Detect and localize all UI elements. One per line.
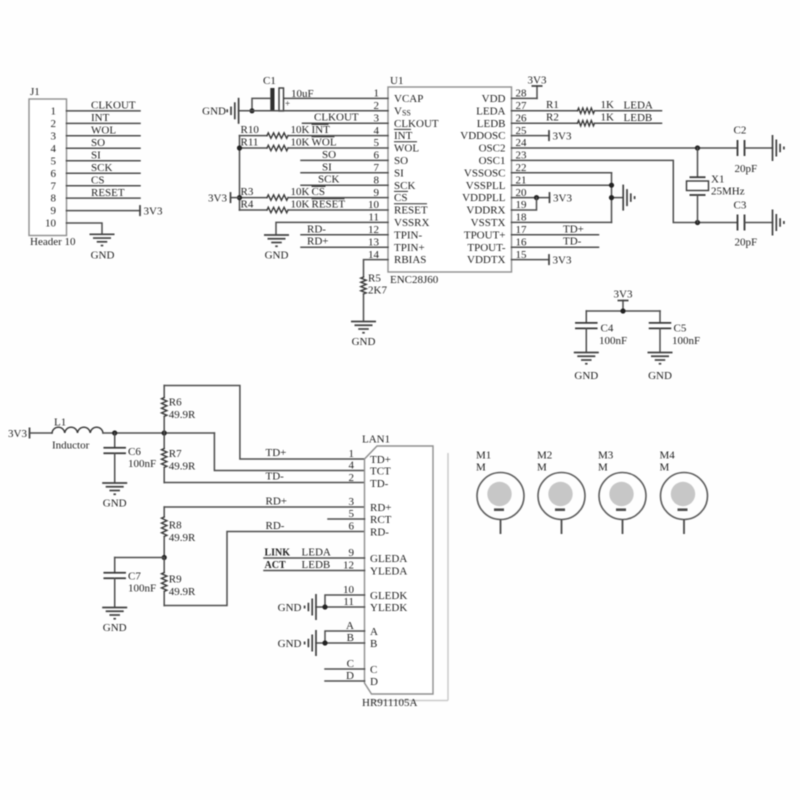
svg-text:RCT: RCT (370, 514, 392, 526)
crystal X1 top plate (690, 176, 706, 178)
resistor R1 1K (LEDA) (512, 110, 578, 112)
wire C4 to ground (585, 328, 587, 352)
analog ground vertical wire (611, 173, 613, 223)
svg-text:GND: GND (574, 370, 598, 382)
svg-text:B: B (347, 632, 354, 644)
svg-text:R8: R8 (169, 520, 182, 532)
decoupling rail wire (586, 310, 660, 312)
wire RD+ to LAN1 pin 3 (164, 506, 364, 508)
wire RCT stub LAN1 pin 5 (328, 518, 365, 520)
wire J1 pin 7 net CS (67, 185, 141, 187)
svg-text:INT: INT (91, 112, 110, 124)
svg-text:GND: GND (265, 250, 289, 262)
resistor R8 49.9R (163, 507, 165, 517)
svg-text:VCAP: VCAP (394, 93, 423, 105)
INT net label overbar (312, 123, 329, 125)
svg-text:SO: SO (322, 149, 336, 161)
svg-text:R9: R9 (169, 574, 182, 586)
mounting hole M2 bottom tick (555, 508, 565, 511)
svg-text:3V3: 3V3 (614, 289, 633, 301)
svg-text:GND: GND (648, 370, 672, 382)
mounting hole M4 pad (671, 482, 695, 506)
svg-text:3: 3 (349, 496, 355, 508)
svg-text:TPIN+: TPIN+ (394, 242, 425, 254)
svg-text:3V3: 3V3 (553, 192, 572, 204)
svg-text:C3: C3 (734, 200, 747, 212)
svg-text:VSSOSC: VSSOSC (464, 167, 506, 179)
junction VSSPLL/ground wire (609, 183, 614, 188)
wire U1 pin 18 VSSTX to ground net (512, 221, 612, 223)
resistor R10 10K (INT pull-up) (240, 135, 268, 137)
svg-text:LEDA: LEDA (302, 547, 331, 559)
svg-text:C6: C6 (128, 446, 141, 458)
svg-text:GND: GND (103, 498, 127, 510)
svg-text:R5: R5 (368, 273, 381, 285)
svg-text:10K: 10K (291, 124, 310, 136)
svg-text:VDDRX: VDDRX (466, 205, 505, 217)
capacitor C1 positive plate (279, 88, 284, 111)
wire YLEDA LAN1 pin 12 (264, 570, 365, 572)
svg-text:100nF: 100nF (599, 335, 627, 347)
wire C2 to ground (745, 147, 773, 149)
mounting hole M4 pin stub (683, 520, 685, 535)
power 3V3 at pin 15 (548, 254, 550, 265)
wire J1 pin 5 net SI (67, 160, 141, 162)
svg-text:C2: C2 (734, 125, 747, 137)
wire C1 to ground net (252, 98, 270, 110)
mounting hole M3 outer circle (599, 473, 646, 520)
svg-text:3V3: 3V3 (553, 130, 572, 142)
resistor R5 2K7 on RBIAS (364, 260, 389, 277)
wire TCT branch to LAN1 pin 4 (214, 433, 364, 471)
svg-text:M: M (537, 462, 547, 474)
svg-text:R2: R2 (546, 111, 559, 123)
wire ground stub to sideways ground (612, 197, 624, 199)
svg-text:D: D (346, 670, 354, 682)
wire C3 to ground (745, 222, 773, 224)
svg-text:RD+: RD+ (370, 502, 391, 514)
junction rail/R6R7 (162, 430, 167, 435)
svg-text:M2: M2 (537, 450, 552, 462)
svg-text:10K: 10K (291, 137, 310, 149)
power 3V3 for decoupling caps (622, 301, 624, 312)
wire U1 pin 6 SO (301, 159, 388, 161)
wire LAN1 pin C stub (325, 668, 365, 670)
capacitor C5 100nF (649, 322, 672, 324)
capacitor C2 20pF (737, 140, 739, 156)
WOL net label overbar (312, 136, 335, 138)
wire R7 bottom to LAN1 pin 2 TD- (164, 482, 364, 484)
crystal X1 bottom plate (690, 194, 706, 196)
svg-text:SCK: SCK (91, 162, 112, 174)
svg-text:M4: M4 (660, 450, 676, 462)
power 3V3 at U1 pin 28 (536, 86, 538, 98)
CS net label overbar (312, 185, 326, 187)
svg-text:1K: 1K (601, 111, 615, 123)
pull-up bus vertical wire (239, 136, 241, 210)
wire GLEDK LAN1 pin 10 to ground (325, 595, 365, 607)
svg-text:6: 6 (51, 168, 57, 180)
mounting hole M3 bottom tick (616, 508, 626, 511)
junction OSC2/crystal top (695, 145, 700, 150)
wire U1 pin 25 VDDOSC to 3V3 (512, 135, 550, 137)
svg-text:C1: C1 (263, 75, 276, 87)
svg-text:SCK: SCK (318, 174, 339, 186)
resistor R6 49.9R (163, 386, 165, 398)
junction rail/C6 (112, 430, 117, 435)
svg-text:VDDPLL: VDDPLL (462, 192, 506, 204)
svg-text:GND: GND (278, 602, 302, 614)
svg-text:YLEDK: YLEDK (370, 602, 407, 614)
power 3V3 at pin 20 (549, 192, 551, 203)
svg-text:SI: SI (91, 150, 101, 162)
wire U1 pin 22 VSSOSC to ground net (512, 172, 612, 174)
wire R6 top to LAN1 pin 1 TD+ (164, 386, 364, 460)
svg-text:SI: SI (322, 161, 332, 173)
svg-text:R6: R6 (169, 397, 182, 409)
svg-text:M: M (476, 462, 486, 474)
svg-text:ENC28J60: ENC28J60 (390, 274, 439, 286)
U1 pin 5 WOL overbar (394, 141, 417, 143)
wire R9 bottom to LAN1 pin 6 RD- (164, 532, 364, 606)
svg-text:2: 2 (51, 118, 57, 130)
svg-text:VSSPLL: VSSPLL (466, 180, 506, 192)
wire U1 pin 7 SI (301, 172, 388, 174)
svg-text:3V3: 3V3 (553, 254, 572, 266)
svg-text:10: 10 (343, 584, 355, 596)
mounting hole M3 pin stub (622, 520, 624, 535)
mounting hole M2 pin stub (561, 520, 563, 535)
svg-text:RD+: RD+ (307, 236, 328, 248)
svg-text:3: 3 (51, 130, 57, 142)
wire LAN1 pin B to ground (316, 642, 365, 644)
junction on ground wire at C1 (249, 108, 254, 113)
svg-text:TCT: TCT (370, 465, 391, 477)
svg-text:M3: M3 (598, 450, 614, 462)
svg-text:TPIN-: TPIN- (394, 229, 422, 241)
wire 3V3 to L1 (30, 432, 52, 434)
svg-text:5: 5 (349, 508, 355, 520)
svg-text:1: 1 (349, 448, 355, 460)
capacitor C4 100nF (575, 322, 598, 324)
svg-text:3V3: 3V3 (528, 75, 547, 87)
wire J1 pin 6 net SCK (67, 172, 141, 174)
mounting hole M1 bottom tick (494, 508, 504, 511)
svg-text:C: C (370, 664, 377, 676)
wire U1 pin 8 SCK (301, 184, 388, 186)
svg-text:TD-: TD- (266, 471, 285, 483)
svg-text:SCK: SCK (394, 180, 415, 192)
U1 pin 9 CS overbar (394, 190, 408, 192)
svg-text:49.9R: 49.9R (169, 461, 196, 473)
svg-text:LEDB: LEDB (477, 118, 506, 130)
svg-text:RESET: RESET (312, 199, 346, 211)
svg-text:49.9R: 49.9R (169, 409, 196, 421)
ground symbol below pin 11 (264, 234, 289, 236)
power 3V3 at J1 pin 9 (139, 205, 141, 216)
capacitor C7 100nF (114, 558, 116, 573)
wire U1 pin 24 OSC2 to crystal (512, 147, 738, 149)
svg-text:CS: CS (394, 192, 407, 204)
svg-text:C: C (347, 658, 354, 670)
svg-text:RD-: RD- (266, 520, 285, 532)
svg-text:3V3: 3V3 (208, 192, 227, 204)
ground symbol right of C2 (sideways) (772, 135, 774, 161)
svg-text:WOL: WOL (312, 137, 337, 149)
svg-text:1: 1 (51, 106, 57, 118)
svg-text:HR911105A: HR911105A (362, 697, 417, 709)
svg-text:VDDTX: VDDTX (467, 254, 506, 266)
mounting hole M1 outer circle (477, 473, 524, 520)
svg-text:GND: GND (352, 336, 376, 348)
svg-text:100nF: 100nF (672, 335, 700, 347)
svg-text:10K: 10K (291, 186, 310, 198)
svg-text:100nF: 100nF (128, 583, 156, 595)
svg-text:LINK: LINK (265, 548, 291, 559)
svg-text:2K7: 2K7 (368, 285, 387, 297)
svg-text:YLEDA: YLEDA (370, 565, 407, 577)
svg-text:CLKOUT: CLKOUT (314, 112, 359, 124)
mounting hole M2 pad (548, 482, 572, 506)
svg-text:4: 4 (349, 460, 355, 472)
junction LED cathode ground (322, 604, 327, 609)
crystal X1 bottom lead (697, 195, 699, 223)
svg-text:OSC1: OSC1 (479, 155, 506, 167)
svg-text:4: 4 (51, 143, 57, 155)
ground symbol below J1 (90, 233, 115, 235)
wire YLEDK LAN1 pin 11 to ground (316, 606, 365, 608)
ground symbol below C7 (102, 607, 127, 609)
ground symbol at LED cathodes (sideways) (315, 594, 317, 620)
svg-text:49.9R: 49.9R (169, 586, 196, 598)
svg-text:LEDB: LEDB (302, 559, 331, 571)
svg-text:B: B (370, 638, 377, 650)
wire junction to C7 (115, 557, 165, 559)
junction 3V3 rail (620, 308, 625, 313)
wire J1 pin 9 to 3V3 (67, 210, 141, 212)
svg-text:RD-: RD- (307, 223, 326, 235)
svg-text:TPOUT+: TPOUT+ (464, 229, 506, 241)
svg-text:R3: R3 (241, 186, 254, 198)
svg-text:LEDA: LEDA (624, 100, 653, 112)
svg-text:M: M (660, 462, 670, 474)
svg-text:VDDOSC: VDDOSC (460, 130, 505, 142)
svg-text:ACT: ACT (265, 560, 286, 571)
connector LAN1 box (365, 446, 434, 694)
junction ground stub (609, 195, 614, 200)
svg-text:RESET: RESET (91, 187, 125, 199)
svg-text:R4: R4 (241, 199, 254, 211)
wire J1 pin 2 net INT (67, 122, 141, 124)
svg-text:GND: GND (103, 622, 127, 634)
svg-text:A: A (346, 620, 354, 632)
wire LAN1 pin A to ground (325, 631, 365, 643)
svg-text:9: 9 (51, 205, 57, 217)
svg-text:SO: SO (394, 155, 408, 167)
svg-text:10uF: 10uF (291, 88, 314, 100)
svg-text:INT: INT (394, 130, 413, 142)
svg-text:R1: R1 (546, 99, 559, 111)
svg-text:CLKOUT: CLKOUT (394, 118, 439, 130)
resistor R3 10K (CS pull-up) (240, 197, 268, 199)
resistor R4 10K (RESET pull-up) (240, 209, 268, 211)
IC U1 box (388, 87, 512, 272)
wire U1 pin 28 VDD to 3V3 (512, 97, 538, 99)
svg-text:TD+: TD+ (370, 454, 391, 466)
svg-text:TD+: TD+ (266, 447, 287, 459)
svg-text:VDD: VDD (482, 93, 506, 105)
svg-text:R11: R11 (241, 137, 259, 149)
wire J1 pin 8 net RESET (67, 197, 141, 199)
mounting hole M4 bottom tick (678, 508, 688, 511)
ground symbol below R5 (351, 321, 376, 323)
wire U1 pin 21 VSSPLL (512, 184, 612, 186)
svg-text:2: 2 (349, 472, 355, 484)
svg-text:9: 9 (349, 547, 355, 559)
svg-text:20pF: 20pF (735, 237, 758, 249)
ground symbol below C5 (648, 352, 673, 354)
wire U1 pin 2 Vss to GND (239, 110, 388, 112)
resistor R9 49.9R (163, 558, 165, 573)
wire GLEDA LAN1 pin 9 (264, 557, 365, 559)
svg-text:OSC2: OSC2 (479, 143, 506, 155)
svg-text:D: D (370, 676, 378, 688)
svg-text:Header 10: Header 10 (30, 236, 76, 248)
wire J1 pin 10 to ground (67, 223, 103, 234)
mounting hole M1 pin stub (500, 520, 502, 535)
svg-text:TD-: TD- (563, 236, 582, 248)
mounting hole M4 outer circle (661, 473, 708, 520)
svg-text:INT: INT (312, 124, 331, 136)
svg-text:M1: M1 (476, 450, 491, 462)
svg-text:TD-: TD- (370, 478, 389, 490)
capacitor C1 negative plate (270, 88, 274, 111)
svg-text:TPOUT-: TPOUT- (467, 242, 505, 254)
svg-text:25MHz: 25MHz (711, 186, 745, 198)
wire U1 pin 12 TPIN- net RD- (301, 234, 388, 236)
svg-text:X1: X1 (711, 174, 724, 186)
ground symbol right of U1 (sideways) (622, 185, 624, 211)
svg-text:+: + (285, 99, 290, 109)
inductor L1 (52, 427, 103, 433)
ground symbol at shield (sideways) (315, 630, 317, 656)
wire U1 pin 15 VDDTX to 3V3 (512, 259, 550, 261)
wire U1 pin 20 VDDPLL to 3V3 (512, 197, 550, 199)
wire L1 to filter rail (103, 432, 214, 434)
mounting hole M2 outer circle (538, 473, 585, 520)
svg-text:RBIAS: RBIAS (394, 254, 426, 266)
ground symbol below C6 (102, 482, 127, 484)
svg-text:L1: L1 (54, 417, 66, 429)
svg-text:C7: C7 (128, 571, 141, 583)
svg-text:3V3: 3V3 (8, 428, 27, 440)
mounting hole M3 pad (609, 482, 633, 506)
crystal X1 body (687, 181, 709, 191)
svg-text:1K: 1K (601, 99, 615, 111)
resistor R11 10K (WOL pull-up) (240, 147, 268, 149)
svg-text:LEDB: LEDB (624, 112, 653, 124)
connector J1 box (29, 99, 67, 236)
svg-text:VSSRX: VSSRX (394, 217, 430, 229)
crystal X1 top lead (697, 148, 699, 177)
wire J1 pin 4 net SO (67, 147, 141, 149)
svg-text:M: M (598, 462, 608, 474)
mounting hole M1 pad (487, 482, 511, 506)
svg-text:10K: 10K (291, 199, 310, 211)
svg-text:R10: R10 (241, 124, 260, 136)
wire U1 pin 17 TPOUT+ net TD+ (512, 234, 599, 236)
svg-text:Inductor: Inductor (52, 440, 90, 452)
svg-text:6: 6 (349, 521, 355, 533)
svg-text:TD+: TD+ (563, 223, 584, 235)
ground symbol below C4 (574, 352, 599, 354)
svg-text:J1: J1 (30, 86, 40, 98)
junction OSC1/crystal bottom (695, 220, 700, 225)
svg-text:49.9R: 49.9R (169, 532, 196, 544)
svg-text:3V3: 3V3 (144, 205, 163, 217)
svg-text:LAN1: LAN1 (362, 434, 390, 446)
U1 pin 4 INT overbar (394, 128, 411, 130)
svg-text:5: 5 (51, 155, 57, 167)
power 3V3 feeding pull-up bus (231, 197, 240, 199)
svg-text:VSSTX: VSSTX (471, 217, 506, 229)
junction VDDPLL/VDDRX (534, 195, 539, 200)
svg-text:CLKOUT: CLKOUT (91, 100, 136, 112)
wire J1 pin 3 net WOL (67, 135, 141, 137)
capacitor C6 100nF (114, 433, 116, 448)
U1 pin 10 RESET overbar (394, 203, 427, 205)
svg-text:RESET: RESET (394, 205, 428, 217)
wire U1 pin 13 TPIN+ net RD+ (301, 246, 388, 248)
svg-text:RD-: RD- (370, 526, 389, 538)
svg-text:10: 10 (45, 218, 57, 230)
wire LAN1 pin D stub (325, 680, 365, 682)
svg-text:SO: SO (91, 137, 105, 149)
svg-text:RD+: RD+ (266, 496, 287, 508)
resistor R7 49.9R (163, 433, 165, 449)
svg-text:20pF: 20pF (735, 163, 758, 175)
RESET net label overbar (312, 198, 345, 200)
svg-text:CS: CS (91, 175, 104, 187)
svg-text:GLEDK: GLEDK (370, 590, 407, 602)
svg-text:7: 7 (51, 180, 57, 192)
svg-text:CS: CS (312, 186, 325, 198)
power 3V3 at pin 25 (548, 130, 550, 141)
junction bus/R3 3V3 entry (237, 195, 242, 200)
svg-text:C5: C5 (674, 323, 687, 335)
svg-text:C4: C4 (601, 323, 614, 335)
wire U1 pin 16 TPOUT- net TD- (512, 246, 599, 248)
wire U1 pin 19 VDDRX up to VDDPLL (512, 198, 537, 210)
junction bus/R11 (237, 145, 242, 150)
wire U1 pin 1 VCAP to C1 (284, 97, 389, 99)
ground symbol right of C3 (sideways) (772, 210, 774, 236)
junction shield ground (322, 640, 327, 645)
wire J1 pin 1 net CLKOUT (67, 110, 141, 112)
svg-text:GND: GND (278, 638, 302, 650)
svg-text:SI: SI (394, 167, 404, 179)
svg-text:A: A (370, 626, 378, 638)
svg-text:LEDA: LEDA (476, 105, 505, 117)
resistor R2 1K (LEDB) (512, 122, 578, 124)
svg-text:WOL: WOL (91, 125, 116, 137)
svg-text:GLEDA: GLEDA (370, 553, 407, 565)
svg-text:WOL: WOL (394, 143, 419, 155)
wire C5 to ground (659, 328, 661, 352)
svg-text:12: 12 (343, 560, 354, 572)
capacitor C3 20pF (737, 215, 739, 231)
svg-text:100nF: 100nF (128, 458, 156, 470)
